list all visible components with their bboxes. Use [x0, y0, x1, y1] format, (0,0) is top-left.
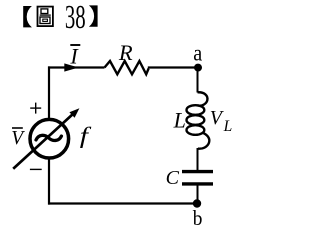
- svg-text:V: V: [11, 128, 25, 149]
- svg-text:L: L: [223, 118, 233, 135]
- capacitor C top plate: [182, 170, 213, 173]
- wire left upper vertical segment: [48, 66, 50, 119]
- source polarity minus: [30, 168, 42, 170]
- current arrow on top wire: [64, 63, 78, 71]
- AC source V circle: [30, 119, 69, 158]
- AC source sine tilde: [36, 135, 61, 140]
- wire left lower vertical segment: [48, 158, 50, 205]
- wire right segment from capacitor to node b: [197, 186, 199, 204]
- svg-text:b: b: [193, 207, 203, 230]
- wire right segment from node a to inductor: [197, 68, 199, 93]
- inductor voltage label VL: [210, 107, 232, 135]
- current label I-bar: [69, 43, 80, 68]
- svg-text:R: R: [118, 40, 133, 65]
- inductor L coil: [187, 92, 210, 148]
- node a junction dot: [194, 64, 202, 72]
- source label V-bar: [11, 128, 25, 149]
- wire right segment from inductor to capacitor: [197, 148, 199, 171]
- svg-text:L: L: [173, 108, 186, 133]
- variable frequency diagonal arrow: [13, 108, 79, 169]
- CJK character 圖: [38, 7, 53, 27]
- capacitor C bottom plate: [182, 182, 213, 185]
- figure title 【圖 38】: [23, 0, 97, 36]
- svg-text:C: C: [166, 167, 180, 189]
- source polarity plus: [30, 103, 41, 114]
- wire top-right horizontal segment: [148, 66, 198, 68]
- wire bottom horizontal segment: [48, 202, 197, 204]
- resistor R: [105, 61, 149, 74]
- node b junction dot: [193, 199, 201, 207]
- right lenticular bracket 】: [89, 5, 98, 26]
- wire top-left horizontal segment: [48, 66, 105, 68]
- left lenticular bracket 【: [23, 6, 32, 27]
- svg-text:38: 38: [65, 0, 86, 36]
- svg-text:a: a: [193, 40, 202, 65]
